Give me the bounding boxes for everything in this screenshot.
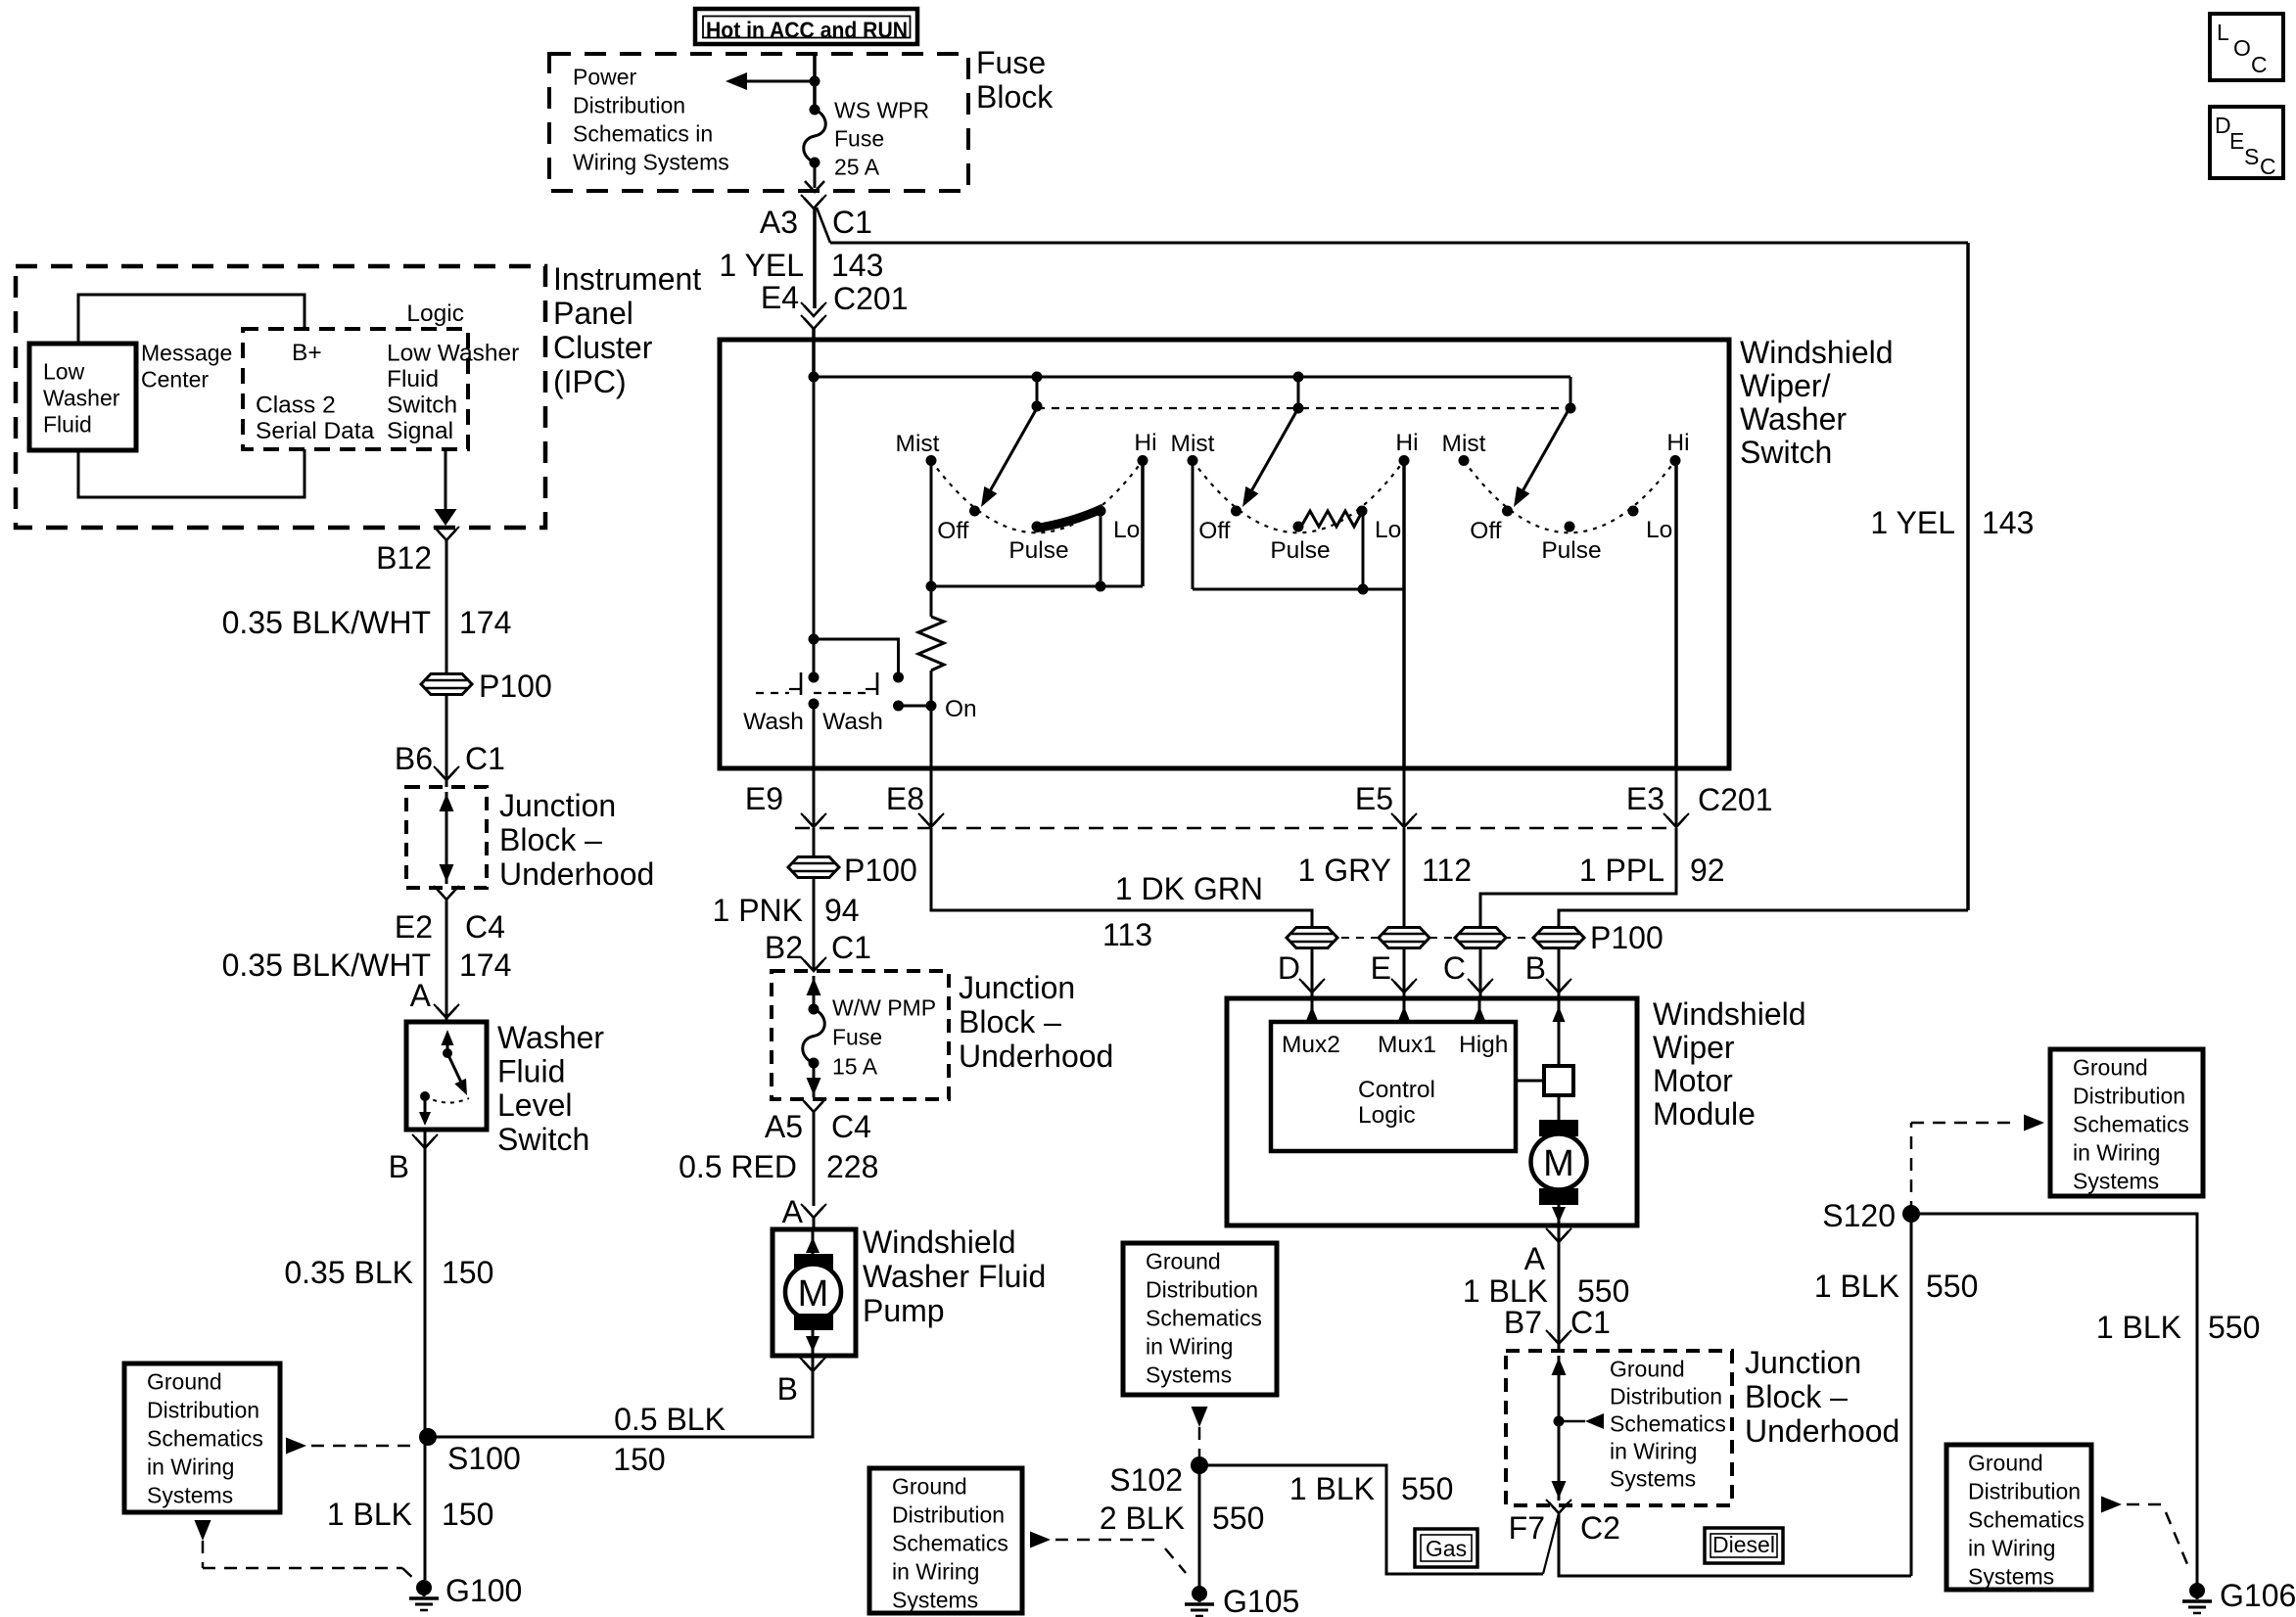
svg-text:Mux1: Mux1 [1378,1032,1436,1058]
svg-text:C201: C201 [1698,782,1773,817]
connector module pin B [1525,950,1571,993]
connector E8 at C201 [918,813,944,827]
svg-text:Systems: Systems [147,1483,233,1508]
svg-text:Schematics: Schematics [892,1531,1008,1556]
ground distribution box (bottom right) [1946,1445,2091,1590]
closed contact bar (Pulse to Lo), section 1 [1034,508,1103,529]
svg-text:Wash: Wash [743,709,804,735]
svg-text:Systems: Systems [892,1588,978,1613]
svg-text:Off: Off [1198,518,1230,544]
label connector C201 (top) [833,281,909,316]
switch section 2 contact Off [1198,506,1242,545]
svg-text:Lo: Lo [1113,517,1140,543]
label P100 (E9 wire) [844,853,917,888]
svg-text:Pulse: Pulse [1270,537,1330,564]
label terminal E5 [1355,781,1393,816]
fuse block (dashed boundary) [549,54,968,191]
svg-text:F7: F7 [1509,1510,1545,1546]
wire module input C to High [1474,998,1486,1022]
wire label 0.5 BLK 150 [613,1402,726,1477]
svg-text:Lo: Lo [1646,517,1672,543]
svg-text:in Wiring: in Wiring [147,1455,234,1480]
node S100 [419,1428,521,1476]
svg-text:Windshield: Windshield [863,1224,1016,1260]
svg-text:Ground: Ground [2073,1055,2148,1081]
svg-text:Pump: Pump [863,1293,945,1328]
svg-text:Wiper/: Wiper/ [1740,368,1831,403]
label Wash (right) [822,709,883,735]
svg-text:1 DK GRN: 1 DK GRN [1115,871,1263,906]
resistor (Pulse to Lo), section 2 [1302,511,1362,527]
svg-text:C: C [1443,950,1466,986]
label pin B12 [376,540,432,576]
svg-text:(IPC): (IPC) [553,364,627,399]
wire pump pin B drop [428,1356,813,1437]
svg-text:1 PPL: 1 PPL [1579,853,1664,888]
wire label 0.35 BLK 150 [284,1255,493,1290]
connector P100 (B wire) [1533,928,1584,948]
svg-text:Junction: Junction [499,788,616,823]
wiper motor M [1531,1095,1587,1225]
svg-text:B6: B6 [395,741,433,776]
connector E5 at C201 [1391,813,1417,827]
svg-text:Signal: Signal [387,418,453,444]
mechanical link (dashed) wash switches [756,692,866,694]
svg-text:A5: A5 [765,1109,803,1144]
label terminal E9 [745,781,783,816]
resistor pulse feed (section 1 drop) [918,586,944,768]
washer fluid level switch (boundary) [406,1022,487,1130]
component name: Windshield Washer Fluid Pump [863,1224,1046,1328]
svg-text:B+: B+ [292,340,322,366]
svg-text:174: 174 [459,605,511,640]
junction block - underhood (left, dashed boundary) [772,971,949,1099]
svg-text:Distribution: Distribution [147,1398,259,1423]
svg-text:150: 150 [442,1255,493,1290]
svg-text:Switch: Switch [497,1122,589,1157]
svg-text:C1: C1 [831,930,871,965]
switch section 1 contact Lo [1096,506,1141,544]
svg-text:Low Washer: Low Washer [387,341,519,367]
svg-text:M: M [798,1273,829,1315]
switch section 1 contact Pulse [1008,522,1068,565]
switch section 1 contact Mist [896,431,940,466]
svg-text:1 BLK: 1 BLK [327,1497,412,1532]
svg-text:Fuse: Fuse [832,1025,882,1050]
svg-text:Mist: Mist [1442,431,1486,457]
svg-text:E: E [1371,950,1391,986]
connector module pin C [1443,950,1493,993]
svg-text:Block –: Block – [959,1004,1061,1039]
svg-text:Fuse: Fuse [976,45,1046,80]
svg-text:Schematics: Schematics [1610,1411,1726,1437]
label connector C201 (bottom) [1698,782,1773,817]
switch section 1 contact Hi [1134,430,1156,466]
svg-text:Distribution: Distribution [1146,1277,1258,1303]
svg-text:Logic: Logic [1358,1102,1416,1129]
pump motor M [785,1229,841,1356]
wire wash feed drop [813,377,816,677]
svg-text:C4: C4 [831,1109,871,1144]
wire wash 2 to On node [899,705,932,708]
svg-text:Mux2: Mux2 [1282,1032,1340,1058]
svg-text:1 BLK: 1 BLK [2096,1310,2181,1345]
svg-text:Washer Fluid: Washer Fluid [863,1259,1046,1294]
svg-text:Instrument: Instrument [553,261,701,297]
svg-text:A: A [782,1194,804,1229]
wire 1 YEL 143 horizontal (C1 to right side) [830,242,1968,245]
label: Class 2 Serial Data [256,393,375,445]
svg-text:Schematics in: Schematics in [573,121,713,147]
svg-text:Center: Center [141,367,209,393]
label: Low Washer Fluid [43,359,120,438]
ground G106 [2182,1578,2296,1613]
connector C201 in-line (dashed) [795,827,1676,830]
connector P100 on E9 wire [788,857,839,878]
svg-text:Ground: Ground [892,1474,967,1500]
connector level switch pin A [434,1004,459,1018]
svg-text:C201: C201 [833,281,909,316]
connector B7/C1 [1546,1330,1571,1344]
wire wash branch to right contact [814,639,899,677]
svg-text:Hi: Hi [1395,430,1418,456]
wire label 1 PNK 94 [713,893,860,928]
svg-text:Panel: Panel [553,296,633,331]
svg-text:1 YEL: 1 YEL [1870,505,1955,540]
instrument panel cluster (dashed boundary) [16,266,545,528]
label box Gas [1415,1529,1477,1567]
wire E8 below box [930,768,933,827]
svg-text:in Wiring: in Wiring [1146,1334,1233,1360]
svg-text:Washer: Washer [1740,401,1847,437]
svg-text:Distribution: Distribution [2073,1084,2185,1109]
label pin E2 / C4 [395,909,505,945]
wire E3 below box [1675,768,1678,827]
wire 1 YEL 143 right vertical [1966,243,1970,910]
svg-text:Gas: Gas [1426,1536,1467,1561]
svg-text:A: A [1524,1241,1546,1276]
svg-text:Underhood: Underhood [959,1039,1113,1074]
svg-text:in Wiring: in Wiring [1968,1536,2055,1561]
svg-text:On: On [945,696,977,722]
svg-text:1 YEL: 1 YEL [719,248,804,283]
label: Low Washer Fluid Switch Signal [387,341,519,445]
svg-text:G100: G100 [445,1573,522,1608]
svg-text:550: 550 [1926,1269,1978,1304]
low washer fluid indicator (boundary) [29,344,136,450]
svg-text:M: M [1543,1143,1574,1184]
svg-text:Ground: Ground [1610,1357,1685,1382]
note: Power Distribution Schematics in Wiring Systems [573,65,729,175]
junction dot power feed [810,76,820,87]
svg-text:E5: E5 [1355,781,1393,816]
wire module input B to switch element [1553,998,1566,1066]
svg-text:Low: Low [43,359,85,385]
fuse W/W PMP 15 A [803,1004,825,1069]
svg-text:Block –: Block – [499,822,602,857]
wire label 1 BLK 550 (gas) [1289,1471,1454,1506]
svg-text:Off: Off [937,518,968,544]
connector module pin A [1524,1228,1571,1276]
ground reference arrow from S120 (dashed) [1911,1115,2044,1215]
svg-text:1 GRY: 1 GRY [1298,853,1391,888]
component name: Windshield Wiper/Washer Switch [1740,335,1894,470]
svg-text:Washer: Washer [43,386,120,411]
junction block - underhood (IPC branch, dashed boundary) [406,787,487,888]
connector E2/C4 [434,886,459,900]
label: Message Center [141,341,232,393]
wire section 1 Hi drop [1141,461,1145,587]
wire section 2 bottom bus [1193,588,1404,591]
switch section 2 contact Lo [1357,506,1402,544]
connector A5/C4 [801,1098,826,1112]
svg-text:0.5 BLK: 0.5 BLK [614,1402,726,1437]
svg-text:1 BLK: 1 BLK [1814,1269,1899,1304]
wire through junction block [807,976,821,1009]
label Wash (left) [743,709,804,735]
wire through junction block (IPC branch) [440,792,454,884]
ground distribution box (top right) [2050,1049,2203,1196]
connector E9 at C201 [801,813,826,827]
wire label 0.5 RED 228 [679,1149,878,1184]
svg-text:0.5 RED: 0.5 RED [679,1149,797,1184]
svg-text:1 BLK: 1 BLK [1289,1471,1375,1506]
wire 1 GRY 112 (E5 to module E) [1403,828,1406,998]
wire S120 to G106 [1911,1214,2197,1589]
svg-text:228: 228 [826,1149,878,1184]
wire E9 to junction block [813,828,816,971]
wire S102 to G105 [1198,1465,1201,1594]
svg-text:1 BLK: 1 BLK [1463,1273,1548,1309]
svg-text:Ground: Ground [147,1369,222,1395]
connector module pin D [1278,950,1325,993]
windshield washer fluid pump (boundary) [773,1229,856,1356]
label pin E4 [761,280,799,315]
svg-text:B12: B12 [376,540,432,576]
svg-text:Level: Level [497,1087,573,1123]
label pin B (pump) [777,1371,798,1407]
svg-text:High: High [1459,1032,1508,1058]
wire pump pin A stub [813,1218,816,1229]
svg-text:Underhood: Underhood [499,856,654,892]
switch section 1 rotary arrow [981,408,1037,507]
wire E4 drop [813,208,817,308]
svg-text:Diesel: Diesel [1712,1532,1775,1557]
connector level switch pin B [412,1134,438,1148]
wire E9 below box [813,768,816,827]
wire E5 below box [1403,768,1406,827]
svg-text:Distribution: Distribution [892,1502,1005,1528]
mechanical link (dashed) between wiper rotors [1037,407,1570,409]
label pin B (level switch) [389,1149,409,1184]
svg-text:Junction: Junction [1745,1345,1861,1380]
ground reference arrow to S100 [286,1438,415,1455]
svg-text:in Wiring: in Wiring [892,1559,979,1585]
node On junction [926,696,977,722]
connector F7/C2 [1546,1500,1571,1513]
svg-text:C1: C1 [1570,1305,1611,1340]
svg-text:O: O [2233,35,2251,61]
component name: Fuse Block [976,45,1054,115]
wire section 2 Lo drop [1358,511,1369,595]
wire: rotor stub section 1 [1032,372,1043,412]
svg-text:1 PNK: 1 PNK [713,893,803,928]
switch section 3 contact arc (dashed) [1464,461,1675,533]
wire label 0.35 BLK/WHT 174 (lower) [222,947,512,983]
wire section 1 bottom bus [931,585,1143,588]
svg-text:Switch: Switch [387,393,457,419]
svg-text:C: C [2260,154,2276,179]
switch section 2 contact Mist [1171,431,1215,466]
wash switch 1 (momentary) [789,672,820,710]
wire S100 to G100 [424,1130,427,1580]
switch section 3 contact Off [1470,506,1513,545]
wire section 2 Hi drop (to E5) [1402,461,1406,769]
wire module input D to Mux2 [1306,998,1319,1022]
svg-text:A3: A3 [760,205,798,240]
connector P100 in-line link (dashed) [1312,937,1559,939]
svg-text:0.35 BLK/WHT: 0.35 BLK/WHT [222,947,431,983]
level switch contacts [419,1030,469,1126]
svg-text:B: B [389,1149,409,1184]
wire into switch box [812,329,816,382]
wire: switch feed bus [814,376,1570,379]
connector E4/C201 (double chevron) [801,302,826,329]
svg-text:Systems: Systems [1968,1564,2054,1590]
wire 0.35 BLK/WHT (B12 to junction block) [445,540,448,787]
svg-text:Windshield: Windshield [1740,335,1894,370]
connector A3/C1 (fuse block output) [801,195,826,208]
svg-text:Wiper: Wiper [1653,1030,1735,1065]
wire label 1 BLK 550 (S120) [1814,1269,1979,1304]
svg-text:in Wiring: in Wiring [1610,1439,1697,1464]
svg-text:E2: E2 [395,909,433,945]
label pin B2 / C1 [765,930,871,965]
svg-text:C1: C1 [832,205,872,240]
module internal switch element (square) [1544,1066,1573,1095]
wire label 1 DK GRN 113 [1102,871,1263,952]
wire indicator to B+ [78,295,305,344]
wire fuse output [814,162,817,188]
node wash feed split [809,634,820,645]
reference box DESC [2210,107,2283,179]
svg-text:Block: Block [976,79,1054,115]
connector B2/C1 [801,957,826,971]
wire 1 PPL 92 (E3 to module C) [1480,828,1676,998]
wire 1 BLK 550 gas (S102 to F7) [1199,1465,1543,1574]
ground distribution box (left of S102) [869,1468,1022,1613]
svg-text:S120: S120 [1822,1198,1896,1233]
svg-text:150: 150 [613,1442,665,1477]
svg-text:Junction: Junction [959,970,1075,1005]
label P100 (module row) [1590,920,1663,955]
component name: Windshield Wiper Motor Module [1653,996,1806,1132]
wire fuse to block edge [807,1063,821,1097]
svg-text:Schematics: Schematics [1146,1306,1262,1331]
connector arrow at fuse block edge [805,181,824,192]
wire switch signal to B12 [435,449,457,526]
svg-text:C4: C4 [465,909,505,945]
label: B+ [292,340,322,366]
svg-text:Systems: Systems [1610,1466,1696,1492]
svg-text:E4: E4 [761,280,799,315]
svg-text:Off: Off [1470,518,1501,544]
label pin C1 [832,205,872,240]
svg-text:Systems: Systems [1146,1363,1232,1388]
wire indicator bottom loop [78,449,305,497]
ground distribution box (above S102) [1123,1243,1277,1395]
connector P100 on B12 wire [421,674,472,695]
svg-text:in Wiring: in Wiring [2073,1140,2160,1166]
wire section 3 Hi drop (to E3) [1674,461,1678,769]
svg-text:143: 143 [1982,505,2034,540]
node S120 [1822,1198,1920,1233]
windshield wiper motor module (boundary) [1227,998,1637,1225]
label: WS WPR Fuse 25 A [834,98,929,180]
label pin A (pump) [782,1194,804,1229]
wire section 2 Mist drop [1192,461,1195,590]
svg-text:B: B [777,1371,798,1407]
svg-text:Systems: Systems [2073,1169,2159,1194]
connector P100 (E wire) [1379,928,1429,948]
svg-text:C1: C1 [465,741,505,776]
switch section 2 rotary arrow [1242,408,1298,507]
windshield wiper/washer switch (boundary) [720,340,1729,768]
svg-text:Block –: Block – [1745,1379,1848,1414]
junction block - underhood (right, dashed boundary) [1506,1351,1732,1505]
component name: Junction Block - Underhood (right) [1745,1345,1899,1449]
svg-text:0.35 BLK/WHT: 0.35 BLK/WHT [222,605,431,640]
node S102 [1109,1456,1208,1498]
label pin A (level switch) [410,978,432,1013]
svg-text:Schematics: Schematics [147,1426,263,1452]
ground G105 [1185,1584,1299,1617]
ground G100 [409,1573,522,1610]
svg-text:Serial Data: Serial Data [256,418,375,444]
svg-text:C2: C2 [1580,1510,1620,1546]
svg-text:Distribution: Distribution [1610,1384,1722,1409]
svg-text:Fluid: Fluid [387,366,439,393]
wire 1 YEL to module B [1559,910,1968,998]
component name: Junction Block - Underhood (left) [959,970,1113,1074]
ground reference arrow to G106 [2101,1497,2187,1565]
wire label 1 BLK 550 (G106) [2096,1310,2261,1345]
svg-text:Windshield: Windshield [1653,996,1806,1032]
label pin B6 / C1 [395,741,505,776]
label input High [1459,1032,1508,1058]
svg-text:E: E [2229,128,2244,154]
svg-text:G106: G106 [2220,1578,2296,1613]
svg-text:Schematics: Schematics [1968,1507,2085,1533]
svg-text:S102: S102 [1109,1462,1183,1498]
svg-text:Module: Module [1653,1096,1756,1132]
svg-text:Control: Control [1358,1077,1435,1103]
svg-text:Power: Power [573,65,637,90]
wash switch 2 (momentary) [866,672,904,712]
label box Diesel [1705,1528,1783,1563]
svg-text:550: 550 [1212,1501,1264,1536]
ground distribution box (left of S100) [124,1363,280,1512]
connector P100 (D wire) [1287,928,1337,948]
svg-text:P100: P100 [1590,920,1663,955]
svg-text:E3: E3 [1626,781,1664,816]
wire label 1 YEL 143 (top) [719,248,883,283]
label terminal E3 [1626,781,1664,816]
switch section 1 contact arc (dashed) [931,461,1143,533]
wire label 1 GRY 112 [1298,853,1472,888]
wire 1 DK GRN 113 (E8 to module D) [931,828,1312,998]
svg-text:W/W PMP: W/W PMP [832,995,936,1021]
